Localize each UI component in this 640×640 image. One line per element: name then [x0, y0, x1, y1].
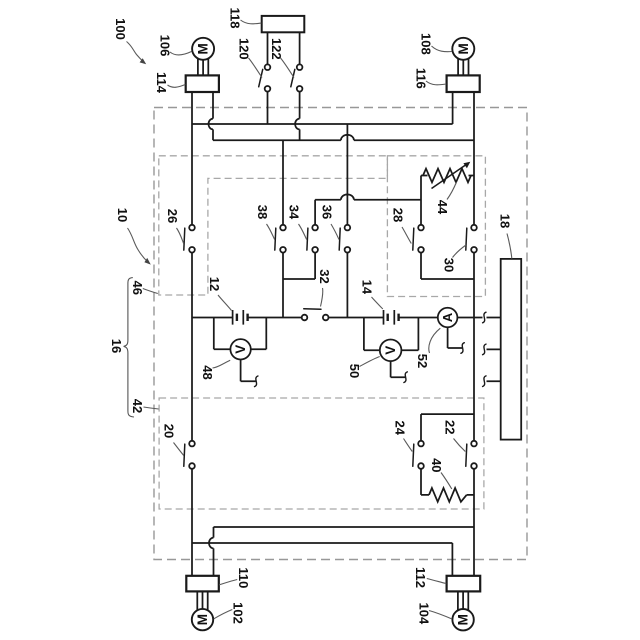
svg-text:118: 118 — [228, 8, 243, 29]
svg-text:A: A — [440, 312, 455, 322]
svg-text:12: 12 — [207, 277, 222, 291]
svg-text:22: 22 — [443, 420, 458, 434]
svg-text:38: 38 — [255, 205, 270, 219]
svg-text:40: 40 — [429, 458, 444, 472]
svg-text:110: 110 — [236, 567, 251, 588]
svg-text:10: 10 — [115, 208, 130, 222]
svg-text:32: 32 — [317, 269, 332, 283]
svg-text:44: 44 — [435, 200, 450, 215]
svg-text:V: V — [233, 345, 248, 354]
svg-text:26: 26 — [165, 209, 180, 223]
svg-text:V: V — [383, 346, 398, 355]
svg-text:30: 30 — [441, 258, 456, 272]
svg-text:48: 48 — [200, 365, 215, 379]
svg-text:24: 24 — [392, 420, 407, 435]
svg-text:16: 16 — [109, 339, 124, 353]
svg-text:106: 106 — [157, 35, 172, 57]
svg-text:120: 120 — [236, 38, 251, 60]
svg-text:M: M — [195, 614, 210, 625]
svg-text:112: 112 — [413, 567, 428, 588]
svg-text:104: 104 — [417, 603, 432, 625]
svg-text:100: 100 — [113, 18, 128, 40]
svg-text:108: 108 — [418, 33, 433, 55]
svg-text:20: 20 — [161, 424, 176, 438]
svg-text:42: 42 — [130, 399, 145, 413]
svg-text:14: 14 — [359, 280, 374, 295]
svg-text:46: 46 — [130, 280, 145, 294]
svg-text:28: 28 — [390, 208, 405, 222]
svg-text:M: M — [196, 43, 211, 54]
svg-text:52: 52 — [415, 354, 430, 368]
svg-text:122: 122 — [269, 38, 284, 60]
svg-text:36: 36 — [319, 205, 334, 219]
svg-text:M: M — [456, 614, 471, 625]
svg-text:M: M — [456, 43, 471, 54]
svg-text:50: 50 — [347, 364, 362, 378]
svg-text:116: 116 — [413, 68, 428, 89]
svg-text:34: 34 — [287, 205, 302, 220]
svg-text:114: 114 — [154, 72, 169, 94]
svg-text:18: 18 — [498, 214, 513, 228]
svg-text:102: 102 — [231, 602, 246, 624]
